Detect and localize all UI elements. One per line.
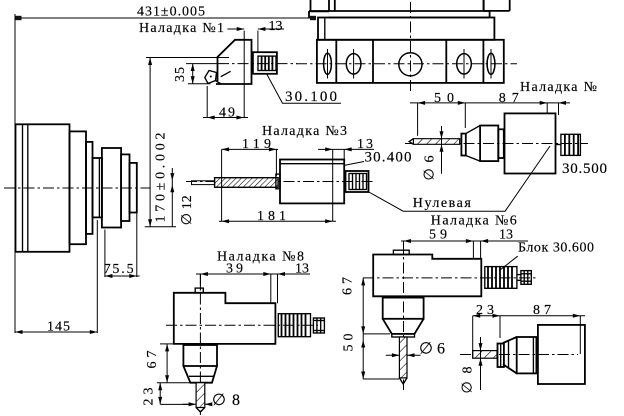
N3 body bbox=[280, 160, 344, 204]
N5 spline shank bbox=[556, 134, 581, 155]
chuck centerline bbox=[4, 187, 150, 189]
N8 horizontal centreline bbox=[166, 324, 318, 326]
svg-text:170±0.002: 170±0.002 bbox=[154, 133, 169, 223]
head centreline horizontal bbox=[296, 63, 517, 65]
N3 boring bar (hatched) bbox=[215, 178, 279, 188]
svg-text:Наладка №: Наладка № bbox=[520, 80, 597, 95]
N6 body bbox=[373, 255, 481, 297]
head left boss bbox=[311, 0, 330, 11]
spindle ellipse 1 bbox=[324, 53, 332, 74]
chuck ring 3 bbox=[93, 158, 102, 217]
dimension Ø6 (N6) bbox=[386, 341, 445, 358]
dimension 39 bbox=[196, 262, 310, 289]
svg-text:13: 13 bbox=[499, 228, 513, 243]
svg-text:35: 35 bbox=[173, 67, 188, 82]
head spindle row bbox=[317, 40, 504, 83]
svg-text:Блок 30.600: Блок 30.600 bbox=[518, 241, 594, 256]
multi-spindle head (top centre) bbox=[296, 0, 517, 93]
svg-text:Наладка №6: Наладка №6 bbox=[431, 214, 517, 229]
svg-text:∅ 12: ∅ 12 bbox=[180, 195, 195, 225]
head thin band bbox=[309, 11, 490, 18]
N6 shank nut bbox=[517, 271, 531, 285]
svg-text:181: 181 bbox=[257, 209, 286, 224]
bottom-right horizontal unit bbox=[460, 303, 585, 394]
N5 drill (hatched) bbox=[413, 139, 459, 145]
dimension 49 bbox=[203, 86, 248, 121]
chuck ring 1 bbox=[70, 131, 87, 244]
BR body bbox=[538, 325, 585, 384]
N1 block chamfer bbox=[221, 71, 231, 76]
svg-text:∅ 6: ∅ 6 bbox=[419, 341, 445, 358]
dimension 87 (BR) bbox=[533, 303, 580, 354]
dimension 431±0.005 bbox=[15, 5, 316, 334]
N8 top tab bbox=[195, 288, 203, 293]
BR collet bbox=[498, 344, 504, 368]
dimension 23 (BR) bbox=[473, 303, 585, 359]
dimension Ø12 bbox=[170, 168, 195, 227]
N3 spline shank bbox=[346, 171, 369, 192]
dimension 13 (N6) bbox=[473, 228, 513, 259]
spindle big circle bbox=[399, 53, 422, 76]
N3 left flange bbox=[276, 174, 280, 189]
leader 30.400 bbox=[344, 162, 364, 166]
svg-text:13: 13 bbox=[269, 19, 283, 34]
N8 shank nut bbox=[313, 318, 324, 333]
svg-text:431±0.005: 431±0.005 bbox=[137, 5, 205, 20]
Нулевая label with leader bbox=[369, 146, 550, 211]
spindle ellipse 4 bbox=[487, 53, 495, 74]
dimension 13 (N8) bbox=[271, 262, 309, 304]
N5 chuck cylinder bbox=[480, 126, 498, 162]
dimension Ø8 (N8) bbox=[183, 392, 240, 409]
N8 drill (hatched) bbox=[196, 383, 205, 408]
N1 spline shank 30.100 bbox=[253, 52, 277, 74]
head centreline vertical bbox=[410, 2, 412, 93]
dimension 35 bbox=[173, 64, 210, 84]
svg-text:13: 13 bbox=[295, 262, 309, 277]
Наладка №3 unit bbox=[170, 124, 411, 227]
N5 collet ring bbox=[461, 134, 465, 156]
dimension 50 (N6) bbox=[342, 334, 400, 380]
dimension 145 bbox=[15, 220, 97, 335]
leader 30.100 bbox=[267, 75, 341, 104]
dimension 181 bbox=[219, 209, 336, 224]
N1 block body bbox=[216, 40, 252, 84]
dimension 59 bbox=[401, 228, 528, 251]
dimension 119 bbox=[222, 137, 278, 221]
dimension Ø8 (BR) bbox=[461, 337, 483, 394]
N6 horizontal centreline bbox=[363, 277, 536, 279]
chuck main body bbox=[16, 124, 70, 252]
N5 chuck cone bbox=[466, 126, 480, 162]
N8 vertical axis bbox=[199, 274, 201, 415]
N3 rod bbox=[192, 181, 215, 185]
chuck jaw block bbox=[102, 148, 121, 228]
dimension 67 (N8) bbox=[145, 344, 174, 383]
head right boss bbox=[484, 0, 510, 11]
N8 body bbox=[174, 293, 276, 344]
dimension 67 (N6) bbox=[341, 277, 391, 334]
N5 chuck step bbox=[498, 129, 504, 158]
N6 drill (hatched) bbox=[399, 337, 407, 378]
svg-text:30.500: 30.500 bbox=[562, 161, 607, 177]
chuck ring 5 bbox=[130, 163, 137, 213]
leader Блок 30.600 bbox=[499, 256, 517, 270]
N3 centreline bbox=[186, 181, 374, 183]
svg-text:∅ 8: ∅ 8 bbox=[212, 392, 240, 409]
dimension 23 (N8) bbox=[142, 383, 197, 406]
head top wide block bbox=[335, 0, 484, 11]
dimension 170±0.002 bbox=[145, 58, 229, 227]
N6 vertical axis bbox=[403, 243, 405, 390]
svg-text:75.5: 75.5 bbox=[104, 262, 134, 277]
Наладка №1 unit bbox=[139, 19, 341, 121]
BR drill (hatched) bbox=[473, 351, 497, 359]
Наладка №6 unit bbox=[341, 214, 595, 391]
svg-text:Наладка №3: Наладка №3 bbox=[262, 124, 347, 139]
svg-text:∅ 8: ∅ 8 bbox=[461, 367, 476, 394]
Наладка №8 unit bbox=[142, 250, 325, 416]
chuck ring 2 bbox=[86, 142, 93, 234]
N5 body bbox=[505, 113, 556, 173]
dimension 13 (N1) bbox=[227, 19, 284, 118]
dimension 13 (N3) bbox=[318, 137, 374, 221]
spindle/chuck side view (left) bbox=[4, 124, 150, 252]
N6 chuck bbox=[383, 298, 424, 319]
N5 centreline bbox=[405, 143, 588, 145]
N8 thread shank bbox=[278, 314, 310, 337]
N6 top tab bbox=[393, 250, 409, 254]
svg-text:Наладка №1: Наладка №1 bbox=[139, 21, 224, 36]
dimension 75.5 bbox=[104, 214, 140, 279]
spindle ellipse 3 bbox=[457, 54, 472, 74]
chuck ring 4 bbox=[121, 154, 129, 221]
head main band bbox=[318, 18, 494, 40]
BR chuck cylinder bbox=[517, 337, 537, 373]
BR centreline bbox=[460, 354, 578, 356]
N1 centreline bbox=[186, 63, 218, 65]
N1 tool bit bbox=[205, 71, 221, 85]
N8 chuck bbox=[183, 345, 217, 366]
spindle ellipse 2 bbox=[346, 54, 361, 74]
dimension 50 (N5) bbox=[410, 91, 570, 136]
Наладка №5 unit (top right) bbox=[405, 80, 607, 181]
dimension 87 (N5) bbox=[499, 91, 566, 115]
svg-text:∅ 6: ∅ 6 bbox=[423, 156, 438, 181]
dimension Ø6 (N5) bbox=[423, 126, 444, 181]
BR chuck cone bbox=[503, 337, 517, 373]
N6 thread shank bbox=[485, 267, 517, 289]
svg-text:Нулевая: Нулевая bbox=[413, 196, 472, 211]
